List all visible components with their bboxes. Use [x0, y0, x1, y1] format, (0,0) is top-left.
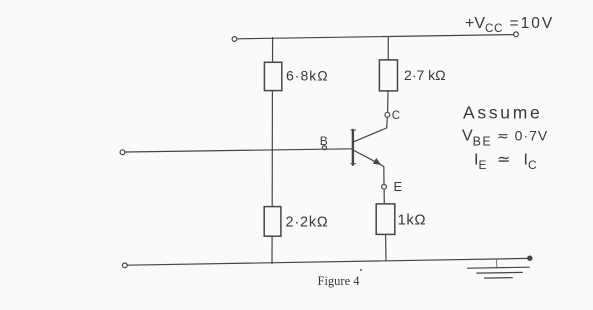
- ground: [468, 267, 530, 268]
- label +Vcc = 10V: [465, 15, 554, 35]
- junction dot bottom-right: [528, 256, 532, 260]
- transistor Q1 bar ticks: [351, 129, 356, 131]
- terminal C: [385, 112, 390, 117]
- transistor Q1 emitter with arrow: [354, 151, 380, 165]
- wire R2 bottom lead: [271, 236, 273, 263]
- wire R3 top lead: [387, 37, 389, 60]
- svg-text:6·8kΩ: 6·8kΩ: [286, 68, 329, 84]
- svg-text:1kΩ: 1kΩ: [398, 212, 427, 229]
- resistor R3 2.7k: [379, 60, 397, 91]
- svg-text:2·7 kΩ: 2·7 kΩ: [404, 67, 446, 83]
- wire ground connector: [496, 259, 498, 267]
- svg-text:C: C: [392, 110, 400, 122]
- resistor R2 2.2k: [264, 207, 281, 237]
- wire E to R4: [383, 189, 385, 204]
- wire R1 top lead: [272, 38, 274, 63]
- resistor R1 6.8k: [264, 62, 281, 90]
- terminal top-left input: [232, 37, 237, 42]
- wire top rail: [237, 35, 514, 39]
- svg-text:E: E: [394, 179, 403, 194]
- svg-text:2·2kΩ: 2·2kΩ: [286, 215, 329, 231]
- svg-text:Figure 4: Figure 4: [318, 274, 361, 288]
- svg-text:Assume: Assume: [463, 103, 542, 123]
- svg-text:VBE ≂ 0·7V: VBE ≂ 0·7V: [462, 128, 548, 149]
- wire base: [125, 149, 352, 152]
- resistor R4 1k: [376, 204, 395, 235]
- wire bottom rail: [127, 258, 528, 265]
- wire R1 bottom to R2 top (left branch): [271, 91, 273, 207]
- svg-text:+VCC =10V: +VCC =10V: [465, 15, 554, 35]
- node B terminal circle: [322, 146, 326, 150]
- wire collector elbow below C: [354, 117, 387, 141]
- terminal +Vcc (right end of top rail): [514, 32, 519, 37]
- transistor Q1 bar: [352, 130, 354, 165]
- terminal bottom-left: [122, 263, 127, 268]
- svg-text:B: B: [320, 134, 328, 148]
- wire R3 bottom to collector terminal: [387, 91, 389, 112]
- wire R4 bottom lead: [385, 234, 387, 260]
- wire emitter elbow down to E terminal: [380, 164, 384, 184]
- svg-text:IE≃IC: IE≃IC: [474, 152, 537, 173]
- terminal E: [382, 184, 387, 189]
- terminal base input (left): [120, 150, 125, 155]
